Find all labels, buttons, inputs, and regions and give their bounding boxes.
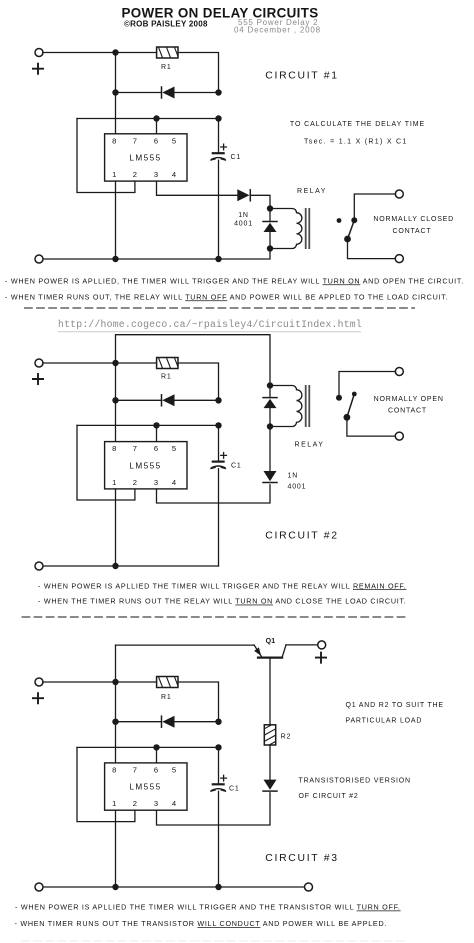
svg-text:- WHEN POWER IS APLLIED THE TI: - WHEN POWER IS APLLIED THE TIMER WILL T…: [38, 581, 406, 590]
diode D1 across R1 (points left): [162, 87, 175, 99]
wire D2 to relay branch: [250, 195, 270, 208]
svg-text:3: 3: [154, 170, 158, 179]
svg-text:8: 8: [112, 766, 116, 775]
wire ground rail circuit 1: [43, 249, 270, 260]
svg-text:5: 5: [172, 444, 176, 453]
node contact arm pivot circuit 2: [344, 414, 351, 421]
wire relay top to flyback diode circuit 2: [269, 386, 271, 398]
svg-text:3: 3: [154, 478, 158, 487]
svg-text:5: 5: [172, 766, 176, 775]
wire C1 bottom to ground rail: [218, 160, 220, 259]
wire R2 to diode D6: [269, 745, 271, 780]
wire R1 to right rail corner circuit 2: [178, 363, 219, 403]
svg-text:2: 2: [133, 478, 137, 487]
capacitor C1 circuit 3: [210, 784, 226, 791]
terminal NO contact top: [395, 368, 403, 376]
svg-text:TO CALCULATE THE DELAY TIME: TO CALCULATE THE DELAY TIME: [290, 121, 425, 128]
svg-text:6: 6: [154, 444, 158, 453]
node D1 anode junction: [112, 89, 118, 95]
wire flyback diode to relay bottom circuit 2: [269, 408, 271, 426]
node D5 anode junction: [112, 719, 118, 725]
plus sign supply circuit 1: [32, 63, 44, 75]
wire NC contact bottom lead: [348, 239, 396, 259]
wire R1 to right rail corner circuit 3: [178, 682, 219, 724]
resistor R1 circuit 2: [150, 358, 178, 369]
capacitor C1 circuit 1: [210, 153, 226, 160]
svg-text:5: 5: [172, 136, 176, 145]
svg-text:7: 7: [133, 136, 137, 145]
node D3 anode junction: [112, 397, 118, 403]
svg-text:R2: R2: [281, 733, 292, 740]
wire pin 2 loop (left): [77, 119, 135, 193]
node NO fixed contact: [336, 395, 342, 401]
wire diode D5 left stub: [116, 721, 162, 723]
wire NO contact bottom lead: [347, 417, 396, 436]
diode D4 1N4001 series (points down): [263, 471, 277, 483]
diode FB1 flyback across coil (points up): [263, 222, 277, 233]
switch arm NC (closed): [348, 220, 355, 239]
wire flyback diode to relay bottom: [269, 232, 271, 249]
plus mark C1 circuit 2: [220, 452, 227, 459]
svg-text:C1: C1: [231, 463, 242, 470]
wire pin 6 stub circuit 3: [156, 747, 158, 763]
node D3 cathode junction: [215, 397, 221, 403]
node NO unused contact: [337, 218, 342, 223]
transistor Q1 PNP: [254, 645, 286, 658]
svg-text:CONTACT: CONTACT: [393, 228, 432, 235]
separator dashed line 2: [22, 616, 407, 618]
node NC fixed contact: [351, 217, 357, 223]
switch arm NO (open): [347, 394, 354, 417]
wire top rail circuit 1: [43, 52, 157, 54]
svg-text:http://home.cogeco.ca/~rpaisle: http://home.cogeco.ca/~rpaisley4/Circuit…: [58, 319, 362, 330]
node relay coil top junction circuit 2: [267, 382, 273, 388]
wire V+ up link to Q1 emitter: [115, 645, 117, 682]
svg-text:CIRCUIT #1: CIRCUIT #1: [265, 71, 338, 82]
faint cut-off separator at bottom edge: [21, 940, 406, 942]
svg-text:Q1 AND R2 TO SUIT THE: Q1 AND R2 TO SUIT THE: [346, 702, 444, 709]
capacitor C1 circuit 2: [210, 462, 226, 469]
svg-text:RELAY: RELAY: [295, 441, 325, 448]
plus sign supply circuit 3: [32, 692, 44, 704]
svg-text:4001: 4001: [288, 483, 307, 490]
wire diode D1 right stub: [175, 92, 219, 94]
wire pin 2 loop circuit 2: [77, 425, 135, 500]
wire pin 3 output circuit 3: [157, 793, 271, 825]
wire timing node down to C1: [218, 119, 220, 153]
wire R1 to right rail corner: [178, 53, 219, 93]
svg-text:C1: C1: [229, 785, 240, 792]
wire diode D3 left stub: [116, 399, 162, 401]
svg-text:2: 2: [133, 170, 137, 179]
plus sign collector output: [315, 652, 327, 664]
op IC U3 LM555 timer: [105, 763, 187, 810]
wire diode D3 right stub: [175, 399, 219, 401]
terminal ground circuit 1: [35, 255, 43, 263]
node relay coil bottom junction: [267, 245, 273, 251]
svg-text:- WHEN THE TIMER RUNS OUT THE: - WHEN THE TIMER RUNS OUT THE RELAY WILL…: [38, 597, 407, 606]
wire C1 bottom to ground rail circuit 3: [218, 791, 220, 887]
svg-text:1: 1: [112, 478, 116, 487]
resistor R1 circuit 3: [150, 677, 178, 688]
svg-text:6: 6: [154, 766, 158, 775]
svg-text:CIRCUIT #2: CIRCUIT #2: [265, 530, 338, 541]
wire V+ vertical to pin 8 circuit 3: [115, 682, 117, 763]
svg-text:8: 8: [112, 444, 116, 453]
terminal V+ input circuit 2: [35, 359, 43, 367]
plus sign supply circuit 2: [32, 373, 44, 385]
wire diode D1 left stub: [116, 92, 162, 94]
svg-text:7: 7: [133, 766, 137, 775]
node pin1/rail junction circuit 3: [112, 884, 118, 890]
svg-text:TRANSISTORISED VERSION: TRANSISTORISED VERSION: [299, 778, 411, 785]
svg-text:R1: R1: [161, 64, 172, 71]
node C1/rail junction: [215, 256, 221, 262]
svg-text:R1: R1: [161, 374, 172, 381]
wire pin 1 to ground rail: [115, 181, 117, 259]
svg-text:LM555: LM555: [129, 154, 161, 163]
op IC U1 LM555 timer: [105, 134, 187, 181]
node pin 6 junction circuit 3: [153, 744, 159, 750]
svg-text:- WHEN TIMER RUNS OUT THE TRAN: - WHEN TIMER RUNS OUT THE TRANSISTOR WIL…: [15, 919, 388, 928]
node arm tip contact: [352, 392, 357, 397]
relay coil K2 with core: [270, 385, 309, 427]
wire pin 6 stub: [156, 119, 158, 134]
wire top rail circuit 2: [43, 362, 157, 364]
node timing / C1 top junction circuit 3: [215, 744, 221, 750]
terminal NO contact bottom: [395, 432, 403, 440]
svg-text:- WHEN TIMER RUNS OUT, THE REL: - WHEN TIMER RUNS OUT, THE RELAY WILL TU…: [5, 292, 448, 301]
svg-text:04 December , 2008: 04 December , 2008: [234, 26, 321, 35]
wire V+ vertical to pin 8 circuit 2: [115, 363, 117, 442]
wire pin 3 output circuit 2: [157, 485, 271, 503]
wire NC contact top lead: [354, 194, 395, 218]
node pin1/rail junction circuit 2: [112, 563, 118, 569]
wire ground rail circuit 2: [43, 565, 219, 567]
plus mark C1: [220, 144, 227, 151]
wire pin 2 loop circuit 3: [77, 747, 135, 821]
svg-text:CIRCUIT #3: CIRCUIT #3: [265, 853, 338, 864]
wire pin 1 to ground rail circuit 2: [115, 489, 117, 566]
svg-text:RELAY: RELAY: [297, 188, 327, 195]
diode D5 across R1 (points left) circuit 3: [162, 716, 175, 728]
svg-text:Q1: Q1: [266, 638, 276, 645]
terminal NC contact top: [395, 190, 403, 198]
wire V+ vertical to pin 8: [115, 53, 117, 134]
plus mark C1 circuit 3: [220, 775, 227, 782]
node pin1/rail junction: [112, 256, 118, 262]
node V+ / R1 / pin8 junction circuit 3: [112, 679, 118, 685]
svg-text:1: 1: [112, 170, 116, 179]
wire pin 6 stub circuit 2: [156, 425, 158, 441]
svg-text:PARTICULAR LOAD: PARTICULAR LOAD: [346, 717, 423, 724]
wire threshold bus pins 2+6 to C1: [77, 118, 219, 120]
node pin 6 junction: [153, 115, 159, 121]
diode D3 across R1 (points left) circuit 2: [162, 394, 175, 406]
svg-text:©ROB PAISLEY 2008: ©ROB PAISLEY 2008: [124, 19, 208, 28]
svg-text:OF CIRCUIT #2: OF CIRCUIT #2: [299, 793, 359, 800]
wire relay bottom to 1N4001: [269, 427, 271, 472]
terminal ground right circuit 3: [305, 883, 313, 891]
terminal V+ input circuit 3: [35, 678, 43, 686]
wire emitter lead from V+: [116, 644, 255, 646]
node C1/rail junction circuit 3: [215, 884, 221, 890]
resistor R2 base resistor: [264, 723, 275, 748]
svg-text:2: 2: [133, 799, 137, 808]
diode FB2 flyback across coil (points up): [263, 398, 277, 409]
wire threshold bus circuit 3: [77, 746, 219, 748]
wire timing node down to C1 circuit 3: [218, 747, 220, 783]
svg-text:1N: 1N: [238, 212, 249, 219]
wire relay top to flyback diode: [269, 209, 271, 222]
svg-text:7: 7: [133, 444, 137, 453]
svg-text:4001: 4001: [234, 221, 253, 228]
svg-text:C1: C1: [231, 154, 242, 161]
hyperlink underline faint: [58, 331, 361, 333]
terminal ground left circuit 3: [35, 883, 43, 891]
svg-text:1: 1: [112, 799, 116, 808]
wire pin 1 to ground rail circuit 3: [115, 810, 117, 887]
node D5 cathode junction: [215, 719, 221, 725]
svg-text:R1: R1: [161, 694, 172, 701]
svg-text:- WHEN POWER IS APLLIED THE TI: - WHEN POWER IS APLLIED THE TIMER WILL T…: [15, 903, 401, 912]
node relay coil bottom junction circuit 2: [267, 423, 273, 429]
wire NO contact top lead: [339, 372, 396, 396]
resistor R1 circuit 1: [150, 47, 178, 58]
wire C1 bottom to ground rail circuit 2: [218, 469, 220, 566]
wire collector lead: [286, 644, 318, 646]
wire base vertical to R2: [269, 659, 271, 725]
diode D6 series (points down) circuit 3: [263, 780, 277, 792]
node relay coil top junction: [267, 205, 273, 211]
node pin 6 junction circuit 2: [153, 422, 159, 428]
svg-text:CONTACT: CONTACT: [388, 408, 427, 415]
svg-text:NORMALLY CLOSED: NORMALLY CLOSED: [373, 216, 454, 223]
wire timing node down to C1 circuit 2: [218, 425, 220, 460]
relay coil K1 with core: [270, 208, 309, 249]
node timing / C1 top junction: [215, 115, 221, 121]
svg-text:4: 4: [172, 170, 176, 179]
node contact arm pivot: [344, 236, 351, 243]
wire threshold bus circuit 2: [77, 424, 219, 426]
diode D2 1N4001 series (points right): [237, 189, 250, 201]
svg-text:LM555: LM555: [129, 461, 161, 470]
wire diode D5 right stub: [175, 721, 219, 723]
svg-text:6: 6: [154, 136, 158, 145]
terminal collector output: [318, 641, 326, 649]
node D1 cathode junction: [215, 89, 221, 95]
wire ground rail circuit 3: [43, 886, 305, 888]
svg-text:4: 4: [172, 478, 176, 487]
node V+ / R1 / pin8 junction circuit 2: [112, 360, 118, 366]
op IC U2 LM555 timer: [105, 442, 187, 489]
svg-text:3: 3: [154, 799, 158, 808]
svg-text:NORMALLY OPEN: NORMALLY OPEN: [374, 396, 444, 403]
svg-text:- WHEN POWER IS APLLIED, THE T: - WHEN POWER IS APLLIED, THE TIMER WILL …: [5, 276, 464, 285]
node timing / C1 top junction circuit 2: [215, 422, 221, 428]
wire top rail circuit 3: [43, 681, 157, 683]
svg-text:LM555: LM555: [129, 783, 161, 792]
svg-text:8: 8: [112, 136, 116, 145]
node V+ / R1 / pin8 junction: [112, 49, 118, 55]
terminal V+ input circuit 1: [35, 49, 43, 57]
svg-text:Tsec. = 1.1 X (R1) X C1: Tsec. = 1.1 X (R1) X C1: [304, 139, 408, 146]
terminal ground circuit 2: [35, 562, 43, 570]
terminal NC contact bottom: [395, 255, 403, 263]
svg-text:1N: 1N: [288, 472, 299, 479]
wire V+ link to relay (over top): [116, 335, 271, 386]
separator dashed line 1: [24, 307, 415, 309]
svg-text:4: 4: [172, 799, 176, 808]
wire pin 3 output: [157, 181, 238, 195]
